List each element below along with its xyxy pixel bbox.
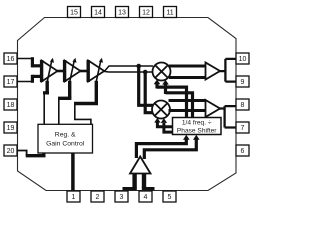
svg-text:15: 15 — [70, 10, 78, 17]
svg-text:16: 16 — [7, 56, 15, 63]
svg-text:2: 2 — [96, 194, 100, 201]
svg-text:Gain Control: Gain Control — [46, 140, 85, 147]
svg-text:4: 4 — [144, 194, 148, 201]
svg-text:20: 20 — [7, 148, 15, 155]
svg-text:12: 12 — [142, 10, 150, 17]
svg-text:6: 6 — [241, 148, 245, 155]
svg-text:1/4 freq. ÷: 1/4 freq. ÷ — [182, 120, 212, 127]
svg-text:9: 9 — [241, 79, 245, 86]
svg-text:13: 13 — [118, 10, 126, 17]
svg-text:3: 3 — [120, 194, 124, 201]
svg-text:7: 7 — [241, 125, 245, 132]
svg-text:5: 5 — [168, 194, 172, 201]
svg-text:18: 18 — [7, 102, 15, 109]
svg-text:Reg. &: Reg. & — [55, 132, 76, 139]
svg-text:1: 1 — [72, 194, 76, 201]
svg-text:11: 11 — [166, 10, 173, 17]
svg-text:14: 14 — [94, 10, 102, 17]
svg-text:10: 10 — [239, 56, 247, 63]
svg-text:8: 8 — [241, 102, 245, 109]
svg-text:19: 19 — [7, 125, 15, 132]
svg-text:17: 17 — [7, 79, 15, 86]
svg-text:Phase Shifter: Phase Shifter — [177, 127, 217, 134]
